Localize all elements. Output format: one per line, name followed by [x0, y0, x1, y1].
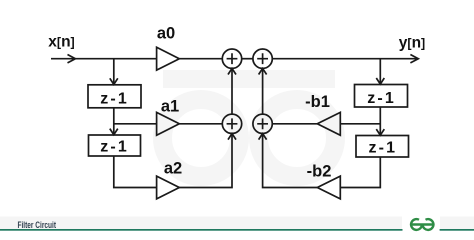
GeeksforGeeks logo mark	[410, 219, 433, 230]
svg-text:a2: a2	[164, 160, 182, 178]
wire -b1 to summer S4	[272, 123, 317, 125]
arrowhead into S1 bottom	[228, 68, 236, 74]
wire a0 to summer S1	[179, 58, 222, 60]
wire right branch to gain -b1	[340, 123, 380, 125]
arrowhead into S3 bottom	[228, 134, 236, 140]
arrowhead into right delay 2	[376, 129, 384, 135]
svg-text:a1: a1	[161, 97, 179, 115]
wire right delay 2 to gain -b2	[340, 157, 380, 188]
wire -b2 up to summer S4	[263, 134, 318, 187]
watermark GfG logo (faint)	[163, 79, 336, 177]
wire a1 to summer S3	[179, 123, 222, 125]
gain a1 triangle	[157, 112, 180, 135]
svg-text:z-1: z-1	[100, 90, 127, 107]
delay box left Z2 (z-1)	[89, 135, 141, 156]
wire output line to y[n]	[272, 58, 418, 60]
summer S1 plus	[227, 53, 238, 64]
wire S1 to S2	[242, 58, 253, 60]
gain a2 triangle	[157, 176, 180, 199]
svg-text:-b2: -b2	[307, 162, 332, 180]
wire branch down to right delay 1	[379, 59, 381, 84]
footer teal rule left segment	[0, 229, 403, 231]
arrowhead into S4 bottom	[259, 134, 267, 140]
svg-text:Filter Circuit: Filter Circuit	[18, 220, 57, 230]
input arrowhead	[68, 55, 76, 63]
summer S2 plus	[257, 53, 268, 64]
wire a2 up to summer S3	[179, 134, 232, 187]
svg-text:-b1: -b1	[305, 93, 330, 111]
svg-text:z-1: z-1	[100, 139, 127, 156]
wire left delay 2 to gain a2	[114, 156, 157, 188]
gain -b2 triangle (points left)	[317, 176, 340, 199]
arrowhead into S2 bottom	[259, 68, 267, 74]
svg-text:z-1: z-1	[367, 90, 394, 107]
delay box left Z1 (z-1)	[88, 85, 141, 108]
svg-text:a0: a0	[157, 25, 175, 43]
summer S2 circle	[253, 49, 272, 68]
wire S4 up to S2	[262, 69, 264, 114]
gain -b1 triangle (points left)	[317, 112, 340, 135]
summer S1 circle	[222, 49, 241, 68]
summer S3 plus	[227, 118, 238, 129]
wire input main line x[n]	[51, 58, 157, 60]
footer band	[0, 217, 474, 230]
summer S4 circle	[253, 114, 272, 133]
wire branch to gain a1	[114, 123, 157, 125]
wire branch down to left delay 1	[113, 59, 115, 84]
wire S3 up to S1	[231, 69, 233, 114]
summer S3 circle	[222, 114, 241, 133]
wire left delay 1 to delay 2	[113, 108, 115, 134]
svg-text:y[n]: y[n]	[399, 35, 425, 52]
arrowhead into left delay 2	[110, 129, 118, 135]
wire right delay 1 to delay 2	[379, 107, 381, 134]
output arrowhead	[410, 55, 418, 63]
delay box right Z3 (z-1)	[355, 85, 408, 108]
svg-text:x[n]: x[n]	[48, 34, 74, 51]
footer teal rule right segment	[440, 229, 474, 231]
summer S4 plus	[257, 118, 268, 129]
delay box right Z4 (z-1)	[356, 136, 409, 158]
footer white gap behind logo	[402, 214, 440, 234]
arrowhead into right delay 1	[376, 78, 384, 84]
gain a0 triangle	[157, 47, 180, 70]
svg-text:z-1: z-1	[369, 140, 396, 157]
arrowhead into left delay 1	[110, 78, 118, 84]
